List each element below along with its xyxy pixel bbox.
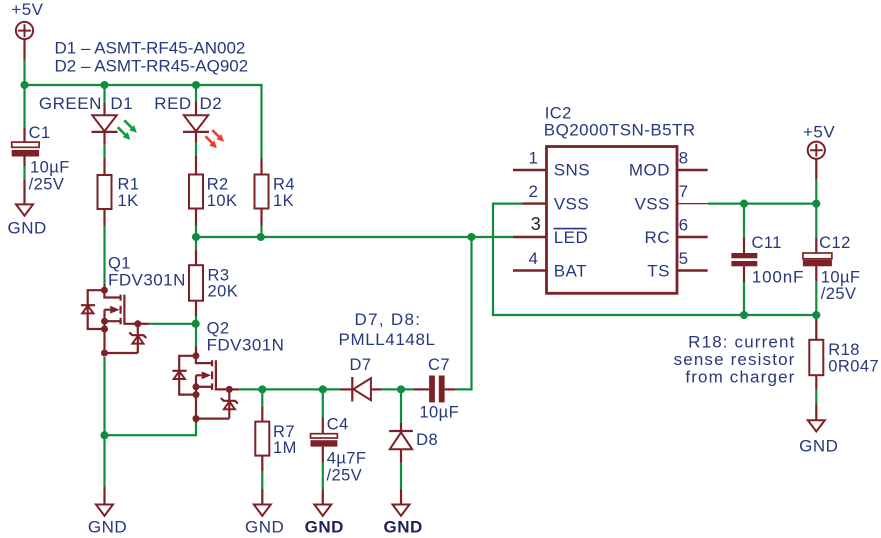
svg-text:D2 – ASMT-RR45-AQ902: D2 – ASMT-RR45-AQ902 — [55, 56, 249, 75]
svg-text:RC: RC — [644, 228, 670, 247]
svg-text:BQ2000TSN-B5TR: BQ2000TSN-B5TR — [544, 121, 696, 140]
svg-text:GND: GND — [245, 518, 284, 537]
svg-text:C11: C11 — [752, 234, 782, 252]
svg-text:C1: C1 — [29, 124, 51, 142]
svg-text:+5V: +5V — [803, 123, 835, 142]
svg-text:10µF: 10µF — [30, 159, 70, 177]
svg-text:0R047: 0R047 — [828, 357, 879, 375]
svg-text:BAT: BAT — [554, 261, 587, 280]
svg-text:10µF: 10µF — [821, 269, 861, 287]
svg-text:TS: TS — [647, 261, 670, 280]
svg-text:7: 7 — [679, 182, 689, 201]
svg-text:3: 3 — [531, 214, 541, 234]
svg-text:+5V: +5V — [11, 0, 43, 19]
svg-text:SNS: SNS — [554, 161, 590, 180]
svg-text:10K: 10K — [207, 192, 238, 210]
svg-text:4µ7F: 4µ7F — [327, 449, 367, 467]
svg-text:FDV301N: FDV301N — [207, 336, 285, 355]
svg-text:/25V: /25V — [821, 285, 857, 303]
svg-text:1: 1 — [529, 149, 539, 168]
svg-text:C4: C4 — [327, 415, 349, 433]
svg-text:C12: C12 — [819, 234, 851, 252]
svg-text:D1 – ASMT-RF45-AN002: D1 – ASMT-RF45-AN002 — [55, 39, 246, 58]
svg-text:5: 5 — [679, 249, 689, 268]
svg-text:from charger: from charger — [685, 368, 795, 387]
svg-text:GND: GND — [305, 518, 344, 537]
svg-text:1K: 1K — [273, 192, 294, 210]
svg-text:20K: 20K — [208, 283, 239, 301]
svg-text:R4: R4 — [273, 175, 295, 193]
svg-text:1K: 1K — [118, 192, 139, 210]
svg-text:C7: C7 — [428, 356, 450, 374]
svg-text:D7: D7 — [350, 356, 372, 374]
svg-text:GREEN: GREEN — [39, 94, 102, 113]
svg-text:6: 6 — [679, 216, 689, 235]
svg-text:4: 4 — [529, 249, 539, 268]
svg-text:D7, D8:: D7, D8: — [355, 310, 422, 329]
svg-text:100nF: 100nF — [752, 268, 804, 287]
svg-text:D1: D1 — [110, 94, 133, 113]
svg-text:VSS: VSS — [554, 194, 590, 213]
svg-text:LED: LED — [554, 228, 589, 247]
svg-text:10µF: 10µF — [419, 404, 459, 422]
svg-text:sense resistor: sense resistor — [674, 350, 796, 369]
svg-text:VSS: VSS — [634, 194, 670, 213]
svg-text:GND: GND — [8, 218, 47, 237]
svg-text:1M: 1M — [273, 439, 297, 457]
svg-text:RED: RED — [154, 94, 191, 113]
svg-text:R18: R18 — [828, 341, 860, 359]
svg-text:GND: GND — [88, 518, 127, 537]
svg-text:FDV301N: FDV301N — [108, 270, 186, 289]
svg-text:/25V: /25V — [29, 176, 65, 194]
svg-text:/25V: /25V — [327, 466, 363, 484]
svg-text:2: 2 — [529, 182, 539, 201]
svg-text:R18: current: R18: current — [688, 333, 795, 352]
svg-text:MOD: MOD — [629, 161, 670, 180]
svg-text:PMLL4148L: PMLL4148L — [339, 330, 436, 349]
svg-text:R2: R2 — [207, 175, 229, 193]
svg-text:D8: D8 — [416, 431, 438, 449]
svg-text:R1: R1 — [118, 175, 140, 193]
svg-text:GND: GND — [799, 437, 838, 456]
svg-text:8: 8 — [679, 149, 689, 168]
svg-text:GND: GND — [384, 518, 423, 537]
svg-text:D2: D2 — [200, 94, 223, 113]
